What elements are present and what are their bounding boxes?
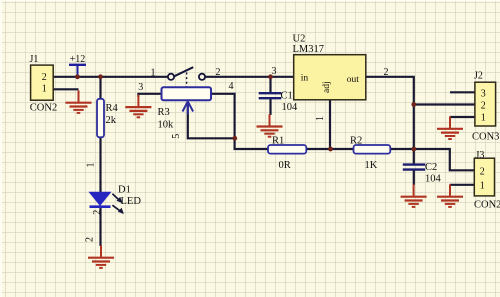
wire: R3 pin4 down to R1 left: [211, 94, 268, 149]
wire: output node to J3 pin2: [414, 149, 475, 170]
resistor R1: [268, 145, 306, 154]
svg-text:J2: J2: [474, 71, 483, 82]
svg-text:2: 2: [92, 210, 103, 215]
ground under LED: [88, 245, 114, 268]
LED D1: [90, 192, 124, 214]
potentiometer R3: [162, 87, 212, 100]
svg-text:CON2: CON2: [474, 199, 500, 210]
svg-text:104: 104: [425, 174, 442, 185]
svg-text:3: 3: [138, 82, 143, 93]
svg-text:1K: 1K: [365, 160, 378, 171]
ground under C2: [401, 184, 427, 207]
wire: node down to C1: [269, 77, 271, 92]
connector J2: [475, 82, 496, 126]
wire: R2 right to output node: [390, 148, 414, 150]
svg-text:adj: adj: [322, 81, 332, 93]
ground under J3 pin1: [437, 184, 463, 207]
wire: J1 pin2 to switch pin1: [53, 76, 168, 78]
wire: switch pin2 to LM317 in: [205, 76, 294, 78]
svg-text:1: 1: [481, 113, 486, 124]
svg-text:2: 2: [85, 237, 96, 242]
capacitor C2: [403, 165, 425, 170]
svg-text:1: 1: [151, 67, 156, 78]
svg-text:R4: R4: [106, 103, 119, 114]
ground under C1: [257, 114, 283, 137]
svg-text:2: 2: [384, 67, 389, 78]
wire: R4 bottom to LED anode: [99, 137, 101, 193]
wiper arrow R3: [183, 102, 194, 115]
svg-text:1: 1: [480, 180, 485, 191]
ground under J2 pin1: [437, 117, 463, 140]
node junction at output node: [411, 147, 416, 152]
wire: LM317 adj pin down: [329, 100, 331, 149]
node junction at wiper tap: [232, 136, 237, 141]
svg-text:2: 2: [42, 72, 47, 83]
svg-text:3: 3: [481, 89, 486, 100]
wire: J1 pin1 to ground: [53, 88, 79, 90]
svg-text:C2: C2: [425, 162, 437, 173]
svg-text:5: 5: [171, 134, 182, 139]
wire: R1 right to R2 left: [306, 148, 353, 150]
svg-text:J3: J3: [476, 150, 485, 161]
svg-text:+12: +12: [70, 54, 86, 65]
wire: J3 pin1 to ground: [450, 184, 475, 186]
svg-text:10k: 10k: [158, 120, 175, 131]
svg-text:CON3: CON3: [472, 131, 499, 142]
svg-text:2k: 2k: [106, 115, 117, 126]
capacitor C1: [259, 93, 282, 98]
svg-text:R2: R2: [350, 136, 362, 147]
wire: LM317 out to output bus: [366, 77, 414, 164]
svg-text:4: 4: [229, 81, 234, 92]
svg-text:in: in: [301, 74, 309, 84]
node junction at +12 tap: [75, 74, 80, 79]
ground under R3 pin3: [125, 95, 151, 118]
svg-text:C1: C1: [281, 91, 293, 102]
wire: J2 pin1 to ground: [450, 116, 475, 118]
resistor R4: [97, 99, 104, 138]
switch: [168, 67, 205, 87]
node junction at adj tap: [328, 147, 333, 152]
wire: R3 wiper pin5 to node: [188, 103, 235, 138]
svg-text:D1: D1: [118, 185, 131, 196]
node junction at C1 tap: [268, 74, 273, 79]
svg-text:2: 2: [216, 67, 221, 78]
svg-text:out: out: [347, 75, 360, 85]
svg-text:1: 1: [85, 163, 96, 168]
power +12: [69, 65, 86, 77]
svg-text:LM317: LM317: [293, 44, 325, 55]
svg-text:J1: J1: [30, 54, 39, 65]
node junction at R4 tap: [98, 74, 103, 79]
svg-text:CON2: CON2: [30, 103, 57, 114]
svg-text:104: 104: [282, 102, 299, 113]
connector J1: [31, 65, 54, 100]
ground under J1 pin1: [66, 90, 92, 113]
svg-text:1: 1: [42, 84, 47, 95]
resistor R2: [354, 145, 391, 154]
svg-text:U2: U2: [293, 34, 306, 45]
svg-text:R3: R3: [158, 107, 170, 118]
svg-text:2: 2: [480, 166, 485, 177]
connector J3: [474, 158, 494, 196]
node junction at J2 pin2 tap: [411, 102, 416, 107]
wire: R3 pin3 to ground: [138, 94, 161, 97]
svg-text:R1: R1: [272, 136, 284, 147]
wire: J2 pin3 stub: [450, 91, 475, 93]
wire: output bus to J2 pin2: [414, 103, 475, 105]
wire: C1 to ground: [269, 99, 271, 115]
wire: LED cathode to ground: [99, 207, 101, 246]
wire: C2 to ground: [413, 171, 415, 186]
wire: node to R4 top: [99, 77, 101, 99]
svg-text:2: 2: [481, 101, 486, 112]
regulator U2 LM317: [294, 55, 366, 100]
svg-text:0R: 0R: [279, 160, 291, 171]
svg-text:LED: LED: [121, 196, 142, 207]
svg-text:1: 1: [315, 116, 326, 121]
